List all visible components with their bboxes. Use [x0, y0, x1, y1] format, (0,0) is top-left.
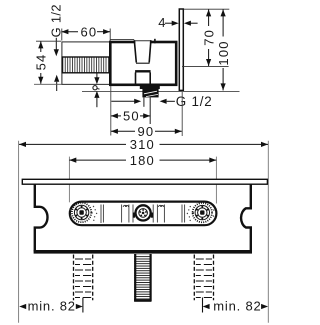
- center knob center dot: [142, 212, 145, 215]
- min82 right: pipe tick: [202, 298, 204, 313]
- dim 70 arrow top: [206, 9, 211, 16]
- dim 60 arrow right: [103, 29, 110, 34]
- dim 50 arrow right: [143, 113, 150, 118]
- dim 4 arrow right-pointing: [172, 21, 179, 26]
- center threaded stub: [134, 255, 151, 301]
- body right edge: [241, 184, 251, 251]
- cup white opening: [135, 39, 150, 63]
- dim 180 line: [69, 159, 126, 161]
- dim 9 lower arrow: [94, 91, 99, 98]
- left valve speckles: [70, 206, 98, 221]
- dim 100 arrow top: [221, 9, 226, 16]
- knob left tab: [133, 213, 135, 218]
- svg-text:100: 100: [216, 40, 231, 65]
- pipe lower arrow up: [54, 75, 59, 82]
- svg-text:50: 50: [123, 109, 140, 124]
- wall bar top line: [22, 179, 267, 184]
- svg-text:180: 180: [130, 153, 155, 168]
- dim 54 line: [40, 41, 42, 52]
- ext line 180 left: [68, 157, 70, 203]
- dim 9 upper arrow: [96, 73, 98, 77]
- left pipe thread dashes: [75, 259, 91, 298]
- cup thick bar: [135, 70, 151, 72]
- dim 70 line: [208, 9, 210, 26]
- min82 right arrow right: [261, 304, 268, 309]
- clip detail right: [159, 205, 164, 207]
- center stub bottom cap: [134, 299, 151, 302]
- cup lower left wall: [135, 73, 137, 85]
- body bottom edge: [34, 250, 252, 254]
- right pipe thread dashes: [196, 259, 212, 298]
- cup lower right wall: [149, 73, 151, 85]
- ext line far left: [18, 141, 20, 323]
- cup inner line: [136, 62, 150, 64]
- knob right tab: [151, 213, 153, 218]
- pipe end wall: [109, 41, 111, 85]
- left valve knurled outer: [72, 203, 91, 222]
- min82 left: pipe tick: [82, 298, 84, 313]
- right valve center: [200, 210, 204, 214]
- svg-text:60: 60: [81, 24, 98, 39]
- right valve speckles: [187, 206, 215, 221]
- dim 90 line: [111, 130, 135, 132]
- ext line mid y66: [182, 66, 229, 68]
- left pipe dashed wall L: [73, 255, 75, 301]
- left pipe dashed wall R: [92, 255, 94, 301]
- dim 70 arrow bottom: [206, 59, 211, 66]
- G1/2 right: arrow to nut left: [111, 100, 135, 102]
- dim 310 line: [19, 143, 126, 145]
- G1/2 leader line: [55, 38, 57, 50]
- dim 310 arrow left: [19, 142, 26, 147]
- cartridge cup right wall: [149, 40, 151, 62]
- dim 50 line: [111, 115, 121, 117]
- nut white slash 1: [144, 91, 157, 94]
- dim 4 line right: [191, 22, 198, 24]
- ext line x110.8 below: [110, 86, 112, 136]
- center knob outer: [136, 205, 151, 220]
- left valve center: [79, 210, 83, 214]
- right valve rings: [195, 205, 209, 219]
- center knob dots: [139, 209, 146, 216]
- svg-text:310: 310: [130, 137, 155, 152]
- dim 90 arrow left: [111, 129, 118, 134]
- svg-text:min. 82: min. 82: [28, 299, 76, 314]
- dim 50 arrow left: [111, 113, 118, 118]
- nut white slash 2: [146, 94, 158, 96]
- mounting plate stadium: [70, 202, 217, 226]
- dim 100 arrow bottom: [221, 83, 226, 90]
- dim 180 arrow right: [209, 158, 216, 163]
- right pipe dashed wall L: [193, 255, 195, 301]
- dim 9 text (drawn as path, rotated digit): [93, 86, 97, 90]
- right pipe dashed wall R: [213, 255, 215, 301]
- svg-text:70: 70: [201, 29, 216, 46]
- nut stub short: [143, 97, 145, 106]
- min82 right arrow left: [203, 304, 210, 309]
- cartridge cup left wall: [134, 40, 136, 62]
- svg-text:54: 54: [33, 54, 48, 71]
- nut extension line: [149, 97, 151, 124]
- union nut flange: [140, 85, 160, 89]
- min82 left arrow right: [76, 304, 83, 309]
- svg-text:G 1/2: G 1/2: [176, 94, 213, 109]
- right valve knurled outer: [193, 203, 212, 222]
- ext line top y9: [184, 8, 230, 10]
- G1/2 right: arrow to nut right: [160, 99, 167, 104]
- right valve petals: [196, 206, 209, 220]
- left valve rings: [74, 205, 88, 219]
- svg-text:min. 82: min. 82: [213, 299, 261, 314]
- left valve side tick: [90, 212, 92, 214]
- center stub wall right: [150, 254, 152, 301]
- dim 100 line: [222, 9, 224, 36]
- ledge line: [110, 38, 134, 40]
- center stub wall left: [134, 254, 136, 301]
- dim 310 arrow right: [261, 142, 268, 147]
- G1/2 leader arrow down: [54, 49, 59, 56]
- clip detail left: [123, 205, 128, 207]
- ext line far right: [267, 141, 269, 323]
- dim 54 top ext line: [36, 40, 61, 42]
- dim 54 arrow top: [38, 41, 43, 48]
- supply pipe hatched: [62, 57, 109, 73]
- pipe section thin outline: [62, 42, 110, 85]
- dim 60 ext right: [109, 29, 111, 42]
- pipe lower arrow tail: [56, 82, 58, 91]
- extension line y91: [82, 90, 240, 92]
- dim 4 arrow left-pointing: [184, 21, 191, 26]
- wall plate: [179, 9, 183, 90]
- ext line x182 below: [181, 92, 183, 136]
- center knob rings: [139, 209, 148, 218]
- dim 90 arrow right: [175, 129, 182, 134]
- dim 60 line: [61, 31, 78, 33]
- dim 54 arrow bottom: [38, 77, 43, 84]
- body left edge: [35, 184, 48, 251]
- ext line 180 right: [215, 157, 217, 204]
- valve body proper outline: [110, 42, 176, 85]
- dim 180 arrow left: [69, 158, 76, 163]
- dim 60 arrow left: [61, 29, 68, 34]
- right valve side tick: [192, 212, 194, 214]
- union nut body: [142, 89, 158, 97]
- stadium tick lines: [101, 205, 185, 224]
- sleeve tick: [154, 39, 156, 44]
- cup top thin line: [134, 40, 151, 42]
- dim 4 line left: [165, 22, 173, 24]
- dim 60 ext left: [61, 29, 63, 41]
- left valve petals: [75, 206, 88, 220]
- dim 54 bottom ext line: [34, 83, 62, 85]
- min82 left arrow left: [19, 304, 26, 309]
